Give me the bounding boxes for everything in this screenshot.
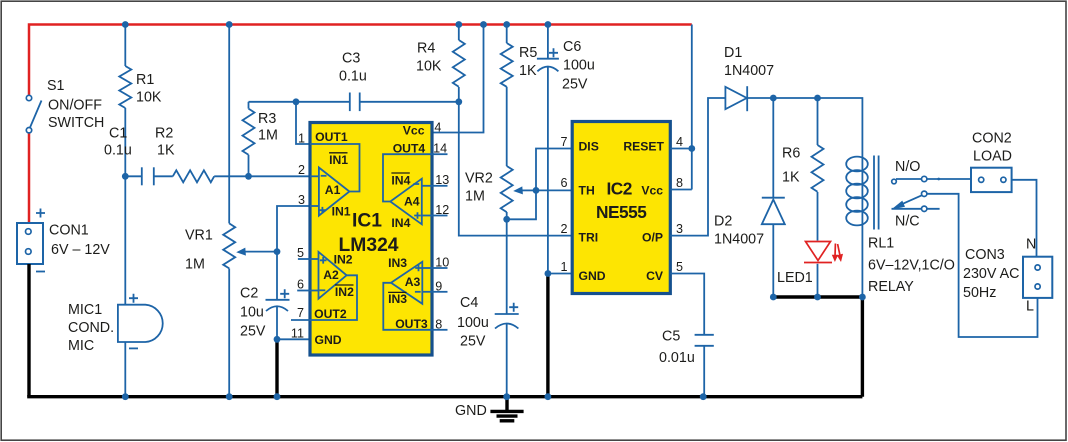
svg-text:CON3: CON3 — [965, 247, 1005, 263]
wire: R3 top to C3 node — [249, 101, 297, 103]
op-amp A2 — [310, 252, 357, 321]
svg-text:3: 3 — [676, 222, 683, 236]
IC2 NE555 box — [572, 122, 670, 294]
svg-text:ON/OFF: ON/OFF — [48, 98, 102, 114]
label S1 ON/OFF SWITCH — [47, 78, 104, 131]
resistor R3 — [243, 102, 255, 177]
diode D1 1N4007 — [725, 86, 773, 111]
svg-text:IN1: IN1 — [332, 205, 351, 219]
svg-text:4: 4 — [676, 135, 683, 149]
ground bus bottom — [27, 395, 862, 398]
svg-text:MIC1: MIC1 — [68, 302, 102, 318]
svg-text:NE555: NE555 — [596, 202, 647, 222]
svg-text:230V AC: 230V AC — [963, 266, 1019, 282]
svg-text:IC1: IC1 — [352, 211, 382, 232]
svg-text:R2: R2 — [155, 126, 173, 142]
relay contact N/O line — [892, 176, 971, 184]
label C2 10u 25V — [240, 286, 266, 340]
IC1 pin stubs — [291, 154, 448, 330]
label D1 1N4007 — [724, 45, 774, 79]
svg-text:C1: C1 — [109, 126, 127, 142]
svg-text:50Hz: 50Hz — [963, 285, 996, 301]
svg-text:IN4: IN4 — [391, 216, 410, 230]
svg-text:TRI: TRI — [579, 231, 599, 245]
svg-text:1K: 1K — [782, 170, 800, 186]
svg-text:D1: D1 — [724, 45, 742, 61]
wire: red S1 to CON1 — [28, 133, 31, 223]
svg-text:7: 7 — [560, 135, 567, 149]
svg-text:5: 5 — [297, 246, 304, 260]
svg-text:RL1: RL1 — [868, 236, 894, 252]
svg-text:25V: 25V — [460, 334, 486, 350]
label CON1 6V-12V — [49, 223, 110, 259]
relay N/C stub — [892, 206, 940, 211]
svg-text:CV: CV — [646, 269, 664, 283]
resistor R1 — [119, 25, 131, 177]
svg-text:N/C: N/C — [895, 214, 920, 230]
svg-text:A4: A4 — [404, 195, 420, 209]
svg-text:IN3: IN3 — [388, 256, 407, 270]
label C5 0.01u — [659, 329, 695, 367]
svg-text:1N4007: 1N4007 — [714, 232, 764, 248]
svg-text:7: 7 — [297, 306, 304, 320]
svg-text:10: 10 — [435, 256, 449, 270]
op-amp A4 — [383, 142, 432, 231]
label R6 1K — [782, 146, 800, 186]
connector CON3 — [1023, 257, 1052, 298]
IC2 pin numbers — [560, 135, 683, 274]
capacitor C1 — [125, 167, 173, 185]
label VR1 1M — [185, 228, 213, 273]
wire: C3/R4 node down to TRI — [459, 102, 572, 236]
label VR2 1M — [465, 171, 493, 205]
labels CON3 230V AC 50Hz N L — [963, 247, 1019, 301]
relay coil RL1 — [846, 156, 878, 298]
resistor R5 — [501, 25, 513, 167]
LED1 — [804, 242, 843, 298]
wire: IC1 GND pin11 — [277, 338, 310, 340]
svg-text:2: 2 — [298, 163, 305, 177]
svg-text:1N4007: 1N4007 — [724, 63, 774, 79]
capacitor C2 — [266, 252, 290, 340]
svg-text:RELAY: RELAY — [868, 279, 914, 295]
op-amp A1 — [310, 130, 360, 219]
svg-text:8: 8 — [435, 318, 442, 332]
resistor R2 — [173, 170, 214, 182]
microphone MIC1 — [118, 294, 163, 349]
svg-text:1K: 1K — [157, 143, 175, 159]
svg-text:N: N — [1026, 237, 1036, 253]
label MIC1 COND. MIC — [68, 302, 114, 354]
potentiometer VR2 — [501, 166, 536, 212]
svg-text:100u: 100u — [457, 315, 489, 331]
wire: V+ red rail top — [29, 25, 692, 96]
svg-text:11: 11 — [291, 327, 304, 341]
svg-text:R4: R4 — [417, 41, 435, 57]
capacitor C3 — [296, 93, 459, 112]
svg-text:C3: C3 — [342, 51, 360, 67]
svg-text:1M: 1M — [185, 257, 205, 273]
svg-text:4: 4 — [434, 121, 441, 135]
wire: IC1 ground drop black — [275, 339, 278, 396]
svg-text:1K: 1K — [519, 63, 537, 79]
label RL1 relay — [868, 236, 955, 296]
svg-text:OUT4: OUT4 — [393, 142, 426, 156]
svg-text:CON1: CON1 — [49, 223, 89, 239]
op-amp A3 — [383, 256, 432, 331]
svg-text:1M: 1M — [258, 128, 278, 144]
svg-text:25V: 25V — [240, 324, 266, 340]
svg-text:IN1: IN1 — [329, 153, 348, 167]
svg-text:D2: D2 — [714, 214, 732, 230]
svg-text:LED1: LED1 — [777, 270, 813, 286]
svg-text:Vcc: Vcc — [641, 184, 663, 198]
labels N/O N/C — [895, 159, 920, 230]
svg-text:R1: R1 — [136, 72, 154, 88]
svg-text:C2: C2 — [240, 286, 258, 302]
label R1 10K — [136, 72, 162, 106]
wire: O/P to D1 — [670, 98, 725, 236]
label C3 0.1u — [339, 51, 367, 85]
label R4 10K — [416, 41, 442, 75]
svg-text:100u: 100u — [563, 58, 595, 74]
svg-text:8: 8 — [676, 176, 683, 190]
svg-text:R5: R5 — [519, 45, 537, 61]
svg-text:RESET: RESET — [623, 140, 664, 154]
svg-text:Vcc: Vcc — [403, 124, 425, 138]
wire: TH pin stub — [536, 189, 572, 191]
svg-text:IN2: IN2 — [335, 285, 354, 299]
IC2 internal labels — [579, 140, 665, 284]
svg-text:OUT1: OUT1 — [315, 130, 348, 144]
wire: D1 output node — [773, 98, 862, 156]
label CON2 LOAD — [972, 131, 1012, 165]
wire: VR2 bottom to C4 — [506, 212, 508, 314]
label C6 100u 25V — [562, 39, 595, 93]
diode D2 1N4007 — [762, 98, 785, 297]
connector CON1 — [17, 209, 45, 272]
svg-text:GND: GND — [579, 269, 606, 283]
label C1 0.1u — [104, 126, 132, 159]
wire: CON2 to CON3 N — [1012, 180, 1037, 257]
svg-text:13: 13 — [435, 173, 449, 187]
svg-text:9: 9 — [435, 280, 442, 294]
wire: CON1 minus to ground bus — [27, 264, 30, 397]
svg-text:L: L — [1026, 299, 1034, 315]
svg-text:C5: C5 — [662, 329, 680, 345]
svg-text:A2: A2 — [323, 268, 339, 282]
relay common arm — [891, 191, 1037, 337]
svg-text:GND: GND — [455, 403, 487, 419]
label D2 1N4007 — [714, 214, 764, 248]
wire: rail to RESET and Vcc of IC2 — [670, 25, 692, 190]
svg-text:IC2: IC2 — [607, 179, 632, 199]
svg-text:OUT2: OUT2 — [314, 307, 347, 321]
svg-text:25V: 25V — [562, 77, 588, 93]
wire: IC2 ground drop black — [546, 274, 549, 397]
svg-text:MIC: MIC — [68, 338, 94, 354]
svg-text:O/P: O/P — [642, 231, 663, 245]
svg-text:IN3: IN3 — [388, 292, 407, 306]
svg-text:1: 1 — [298, 132, 305, 146]
svg-text:6V–12V,1C/O: 6V–12V,1C/O — [868, 258, 955, 274]
svg-text:R6: R6 — [782, 146, 800, 162]
svg-text:SWITCH: SWITCH — [48, 115, 104, 131]
svg-text:0.01u: 0.01u — [659, 350, 695, 366]
svg-text:S1: S1 — [47, 78, 65, 94]
svg-text:14: 14 — [433, 142, 447, 156]
svg-text:12: 12 — [435, 203, 449, 217]
svg-text:C4: C4 — [460, 295, 478, 311]
wire: node to IC1 pin1 — [296, 102, 310, 144]
svg-text:0.1u: 0.1u — [104, 143, 132, 159]
wire: IC2 GND pin stub — [548, 273, 572, 275]
potentiometer VR1 — [223, 25, 277, 397]
svg-text:LM324: LM324 — [339, 235, 399, 256]
label R3 1M — [258, 111, 278, 144]
svg-text:VR2: VR2 — [465, 171, 493, 187]
svg-text:COND.: COND. — [68, 320, 114, 336]
svg-text:1: 1 — [560, 260, 567, 274]
svg-text:A1: A1 — [325, 183, 341, 197]
IC1 labels — [315, 124, 425, 348]
wire: mic to ground — [124, 342, 126, 397]
IC1 LM324 box — [310, 123, 432, 356]
wire: mic node — [124, 176, 126, 304]
svg-text:10K: 10K — [136, 90, 162, 106]
resistor R6 — [812, 98, 824, 241]
label R2 1K — [155, 126, 175, 159]
ground symbol — [490, 397, 523, 421]
svg-text:3: 3 — [298, 193, 305, 207]
resistor R4 — [453, 25, 465, 102]
wire: R2 to IC1 pin2 — [214, 175, 310, 177]
svg-text:0.1u: 0.1u — [339, 69, 367, 85]
svg-text:CON2: CON2 — [972, 131, 1012, 147]
svg-text:10K: 10K — [416, 59, 442, 75]
capacitor C5 — [695, 335, 714, 397]
label R5 1K — [519, 45, 537, 79]
svg-text:2: 2 — [560, 222, 567, 236]
svg-text:N/O: N/O — [895, 159, 920, 175]
svg-text:6: 6 — [297, 278, 304, 292]
svg-text:C6: C6 — [563, 39, 581, 55]
capacitor C4 — [495, 303, 519, 397]
svg-text:6V – 12V: 6V – 12V — [51, 242, 110, 258]
svg-text:1M: 1M — [465, 189, 485, 205]
svg-text:IN4: IN4 — [391, 173, 410, 187]
svg-text:VR1: VR1 — [185, 228, 213, 244]
capacitor C6 — [537, 25, 559, 274]
svg-text:R3: R3 — [258, 111, 276, 127]
svg-text:OUT3: OUT3 — [395, 317, 428, 331]
svg-text:6: 6 — [560, 176, 567, 190]
svg-text:TH: TH — [579, 184, 595, 198]
svg-text:LOAD: LOAD — [973, 149, 1012, 165]
svg-text:5: 5 — [676, 260, 683, 274]
connector CON2 — [971, 168, 1012, 192]
wire: DIS/TH link — [507, 149, 573, 220]
svg-text:GND: GND — [315, 333, 342, 347]
switch S1 — [26, 95, 41, 133]
svg-text:DIS: DIS — [579, 140, 599, 154]
IC1 pin numbers — [291, 121, 449, 341]
wire: rail to IC1 Vcc pin4 — [432, 25, 484, 133]
label C4 100u 25V — [457, 295, 489, 350]
svg-text:10u: 10u — [240, 305, 264, 321]
wire: IC1 pin3 to wiper node — [277, 206, 310, 252]
ground segment right black — [773, 297, 862, 397]
wire: CV to C5 — [670, 274, 704, 335]
svg-text:A3: A3 — [405, 275, 421, 289]
